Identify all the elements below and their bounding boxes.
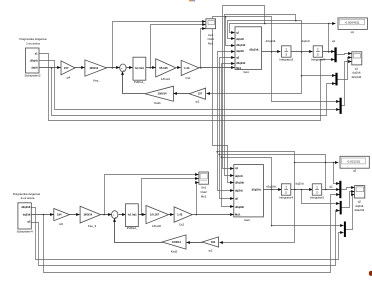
scope3 (q2 group) — [354, 186, 364, 213]
gain Cs1 — [181, 60, 199, 80]
gain 1/Ksd2 — [146, 206, 169, 228]
svg-text:d2q1/dt_: d2q1/dt_ — [249, 48, 260, 52]
svg-text:10/0/14: 10/0/14 — [89, 66, 98, 70]
svg-text:1-os arena: 1-os arena — [26, 41, 40, 45]
gain Ksd1 (feedback, points left) — [145, 86, 174, 105]
wire subsystem2 out2 down to mux2 in2 — [39, 61, 340, 110]
svg-text:d2q2/dt: d2q2/dt — [235, 205, 244, 209]
svg-text:Ue2: Ue2 — [201, 186, 207, 190]
WIRES-TOP — [39, 6, 352, 207]
display q1 — [338, 18, 367, 34]
svg-text:dq1/dt: dq1/dt — [235, 174, 243, 178]
wire dq1 branch to mux2 in1 — [302, 75, 336, 77]
wire dq1 wrap over top to fas1 in2 and fas2 in2 — [225, 15, 296, 176]
svg-text:d2q1/dt: d2q1/dt — [352, 75, 362, 79]
wire mux4 out to scope3 — [342, 188, 355, 190]
wire subsystem2 out3 branch down middle band to mux3 in2 — [52, 68, 336, 116]
svg-text:Mv1: Mv1 — [208, 41, 214, 45]
wire branch to scope Ue1 input 2 — [151, 25, 206, 68]
wire gain Cs2 to fas2 input 7 (Mv2) — [193, 214, 234, 216]
svg-text:-0.0004611: -0.0004611 — [345, 21, 360, 25]
mux3 — [340, 98, 342, 114]
svg-text:194: 194 — [211, 240, 216, 244]
mux1 — [334, 47, 336, 62]
svg-text:d2q2/dt: d2q2/dt — [21, 205, 30, 209]
wire mux1 out to scope1 — [337, 54, 352, 55]
wire mux2 out to scope1 in2 — [338, 58, 352, 80]
wire branch to scope Ue2 input 2 — [142, 179, 199, 215]
integrator Integrator2 — [279, 46, 293, 62]
wire d2q1 wrap to fas1 in3 and fas2 in3 — [226, 17, 272, 52]
subsystem fas1 — [235, 27, 262, 74]
svg-text:d2q2/dt_: d2q2/dt_ — [252, 188, 263, 192]
wire sum2 to block PvRG2_ — [119, 214, 126, 216]
wire q1 branch into fas1 in1 — [230, 24, 265, 33]
svg-text:dq/dt: dq/dt — [31, 66, 37, 70]
sum1 — [120, 64, 126, 72]
block PvRG1_ — [133, 57, 146, 84]
WIRES-BOTTOM — [32, 163, 355, 273]
wire branch to scope Ue1 input 1 — [113, 22, 206, 68]
svg-text:d2q/dt: d2q/dt — [30, 58, 38, 62]
wire Subsystem4 out2 branch down bus 3 to mux4 in3 — [44, 195, 340, 273]
svg-text:d2q2/dt: d2q2/dt — [236, 61, 245, 65]
wire PvRG1_ to gain 1/Ksd1 — [146, 67, 156, 69]
colored smudge top (window fragment) — [189, 0, 195, 1]
svg-text:q2: q2 — [353, 169, 357, 173]
svg-text:d2q2/dt: d2q2/dt — [266, 184, 276, 188]
block PvRG2_ — [126, 204, 139, 230]
svg-text:Mv1_: Mv1_ — [236, 66, 243, 70]
svg-text:1: 1 — [285, 47, 287, 51]
wire q1 wrap over top to fas1 in1 and fas2 in1 — [223, 6, 265, 169]
svg-text:ip1: ip1 — [196, 100, 200, 104]
svg-text:q1: q1 — [332, 39, 336, 43]
wire branch to scope Ue2 input 3 — [197, 183, 199, 215]
mux5 — [340, 201, 342, 215]
wire d2q2 branch down to mux6 in1 — [272, 190, 344, 226]
svg-text:dq2/dt: dq2/dt — [235, 189, 243, 193]
wire Subsystem4 out1 down to bottom bus 1 to mux6 in2 — [32, 208, 344, 260]
wire dq2/dt branch down to gain ip2 — [220, 190, 295, 243]
svg-text:Kse_3: Kse_3 — [88, 224, 97, 228]
svg-text:Subsystem2: Subsystem2 — [25, 74, 41, 78]
scope1 (q1 group) — [352, 52, 362, 79]
svg-text:1: 1 — [316, 185, 318, 189]
gain Ksd2 (feedback, points left) — [162, 235, 186, 254]
wire d2q2 branch down to fas2 in6 — [222, 158, 234, 207]
svg-text:iv1 0a1: iv1 0a1 — [128, 213, 137, 217]
wire gain ip3 to gain Kse_3 — [70, 214, 80, 216]
wire feedback gain Ksd2 to sum2 bottom — [115, 219, 163, 243]
svg-text:dq2/dt: dq2/dt — [295, 182, 303, 186]
wire mux5 out to scope3 in2 — [342, 192, 355, 208]
scope Ue1 (top) — [206, 19, 216, 46]
wire dq2 branch to mux5 in1 — [302, 190, 340, 204]
wire gain Kse_ to sum1 — [107, 67, 120, 69]
svg-text:Integrator4: Integrator4 — [279, 196, 293, 200]
svg-text:Kse_: Kse_ — [93, 78, 100, 82]
svg-text:q1: q1 — [351, 30, 355, 34]
wire d2q1 down branch to mux3 in1 — [272, 52, 340, 102]
gain 1/Ksd1 — [156, 59, 176, 81]
gain Cs2 — [174, 207, 192, 227]
wire gain Cs1 to fas1 input 7 (Mv1) — [199, 67, 235, 69]
svg-text:1: 1 — [317, 47, 319, 51]
wire Integrator2 to Integrator3 — [291, 51, 313, 53]
svg-text:dq2/dt: dq2/dt — [236, 49, 244, 53]
wire gain ip1 to gain Ksd1 — [174, 93, 190, 95]
wire gain 1/Ksd2 to gain Cs2 — [169, 214, 174, 216]
wire dq1 branch into fas1 in2 — [228, 21, 302, 52]
svg-text:PvRG2_: PvRG2_ — [127, 226, 138, 230]
wire d2q1 branch into fas2 in3 via left jog — [213, 17, 234, 183]
svg-text:fas2: fas2 — [244, 218, 250, 222]
wire sum1 to block PvRG1_ — [127, 67, 133, 69]
wire Subsystem4 out2 to gain ip3 — [32, 214, 54, 216]
svg-text:q2: q2 — [329, 185, 333, 189]
svg-text:Integrator2: Integrator2 — [279, 58, 293, 62]
integrator Integrator5 — [310, 184, 324, 200]
wire branch to scope Ue2 input 1 — [105, 175, 199, 215]
svg-text:1.44: 1.44 — [184, 66, 190, 70]
subsystem fas2 — [234, 165, 264, 222]
wire mux3 out up right side — [342, 62, 352, 106]
gain ip2 (feedback, points left) — [202, 237, 218, 253]
svg-text:Ksd1: Ksd1 — [154, 101, 161, 105]
sum2 — [112, 211, 118, 219]
gain ip1 (feedback, points left) — [189, 88, 205, 104]
wire dq2 wrap up from Integrator4 out to fas1 in4 — [218, 52, 295, 190]
svg-text:Integrator3: Integrator3 — [311, 58, 325, 62]
svg-text:fas1: fas1 — [243, 70, 249, 74]
svg-text:1/0.167: 1/0.167 — [150, 213, 159, 217]
wire dq2 branch down to fas2 in4 — [218, 152, 234, 191]
svg-text:Mv2: Mv2 — [201, 194, 207, 198]
wire gain Kse_3 to sum2 — [101, 214, 112, 216]
subsystem Subsystem4 (trajectory generator joint 2) — [13, 192, 40, 233]
gain Kse_3 — [80, 206, 101, 228]
svg-text:10/0/14: 10/0/14 — [158, 92, 167, 96]
wire q2 wrap up from Integrator5 out to fas1 in5 — [220, 58, 326, 190]
svg-text:10/0/14: 10/0/14 — [83, 213, 92, 217]
svg-text:-0.021201: -0.021201 — [347, 159, 361, 163]
svg-text:ip2: ip2 — [209, 248, 213, 252]
svg-text:Subsystem4: Subsystem4 — [17, 230, 33, 234]
wire subsystem2 out1 e1 down and across to mux1 in3 — [39, 54, 335, 121]
svg-text:Mv2_: Mv2_ — [235, 213, 242, 217]
svg-text:dq1/dt: dq1/dt — [236, 37, 244, 41]
svg-text:Cs1: Cs1 — [185, 76, 191, 80]
wire fas1 output to Integrator2 — [262, 51, 281, 53]
orange mark bottom right — [369, 271, 372, 276]
gain ip3 — [54, 209, 70, 226]
svg-text:1: 1 — [285, 185, 287, 189]
wire q2 branch down to fas2 in5 — [220, 155, 234, 199]
svg-text:157: 157 — [64, 66, 69, 70]
display q2 — [340, 156, 369, 172]
svg-text:ip4: ip4 — [67, 76, 71, 80]
svg-text:d2q1/dt: d2q1/dt — [266, 39, 276, 43]
wire fas2 output to Integrator4 — [264, 189, 282, 191]
svg-text:ip3: ip3 — [59, 222, 63, 226]
wire Subsystem4 out3 down bus 2 to mux5 in2 — [32, 211, 340, 266]
wire branch to scope Ue1 input 3 — [201, 29, 206, 68]
svg-text:2-os arena: 2-os arena — [21, 196, 35, 200]
svg-text:Ksd2: Ksd2 — [171, 249, 178, 253]
svg-text:157: 157 — [198, 92, 203, 96]
svg-text:d2q2/dt: d2q2/dt — [354, 208, 364, 212]
svg-text:d2q1/dt: d2q1/dt — [235, 181, 244, 185]
mux6 — [344, 222, 346, 238]
subsystem Subsystem2 (trajectory generator joint 1) — [20, 37, 47, 77]
integrator Integrator4 — [279, 184, 293, 200]
svg-text:1.42: 1.42 — [177, 213, 183, 217]
wire branch down to mux4 in1 — [334, 163, 340, 184]
svg-text:Out2: Out2 — [200, 190, 207, 194]
wire Integrator3 to mux1 — [323, 51, 335, 53]
wire dq1/dt branch down to gain ip1 — [207, 52, 302, 94]
wire gain 1/Ksd1 to gain Cs1 — [177, 67, 181, 69]
svg-text:1/Ksd2: 1/Ksd2 — [152, 224, 161, 228]
svg-text:Cs2: Cs2 — [179, 223, 185, 227]
svg-text:dq1/dt: dq1/dt — [301, 39, 309, 43]
svg-text:iv1 0a1: iv1 0a1 — [135, 66, 144, 70]
svg-text:194: 194 — [57, 213, 62, 217]
svg-text:PvRG1_: PvRG1_ — [134, 80, 145, 84]
wire feedback gain Ksd1 to sum1 bottom — [123, 72, 145, 94]
wire mux6 out up right side — [346, 195, 355, 230]
svg-text:55.125: 55.125 — [159, 66, 168, 70]
svg-text:d2q1/dt: d2q1/dt — [236, 43, 245, 47]
wire Integrator4 to Integrator5 — [291, 189, 313, 191]
gain Kse_ — [85, 60, 107, 83]
mux4 — [339, 181, 341, 198]
wire gain ip2 to gain Ksd2 — [187, 242, 203, 244]
svg-text:dq2/dt: dq2/dt — [23, 212, 31, 216]
svg-text:Integrator5: Integrator5 — [310, 196, 324, 200]
wire q1 up from Integrator3 out — [328, 24, 330, 52]
integrator Integrator3 — [311, 46, 325, 62]
wire gain ip4 to gain Kse_ — [75, 67, 85, 69]
scope Ue2 (bottom) — [199, 172, 209, 198]
mux2 — [335, 73, 337, 86]
wire PvRG2_ to gain 1/Ksd2 — [139, 214, 146, 216]
wire q1 to display q1 — [265, 23, 336, 25]
svg-text:1/Ksd1: 1/Ksd1 — [161, 77, 170, 81]
svg-text:10/0/14: 10/0/14 — [172, 240, 181, 244]
wire Subsystem2 out3 to gain ip4 — [39, 67, 61, 69]
wire d2q2 wrap up from fas2 out to fas1 in6 — [222, 64, 272, 190]
gain ip4 — [61, 61, 75, 80]
wire display q2 feed line — [295, 162, 339, 164]
wire Integrator5 to mux4 — [322, 189, 340, 191]
